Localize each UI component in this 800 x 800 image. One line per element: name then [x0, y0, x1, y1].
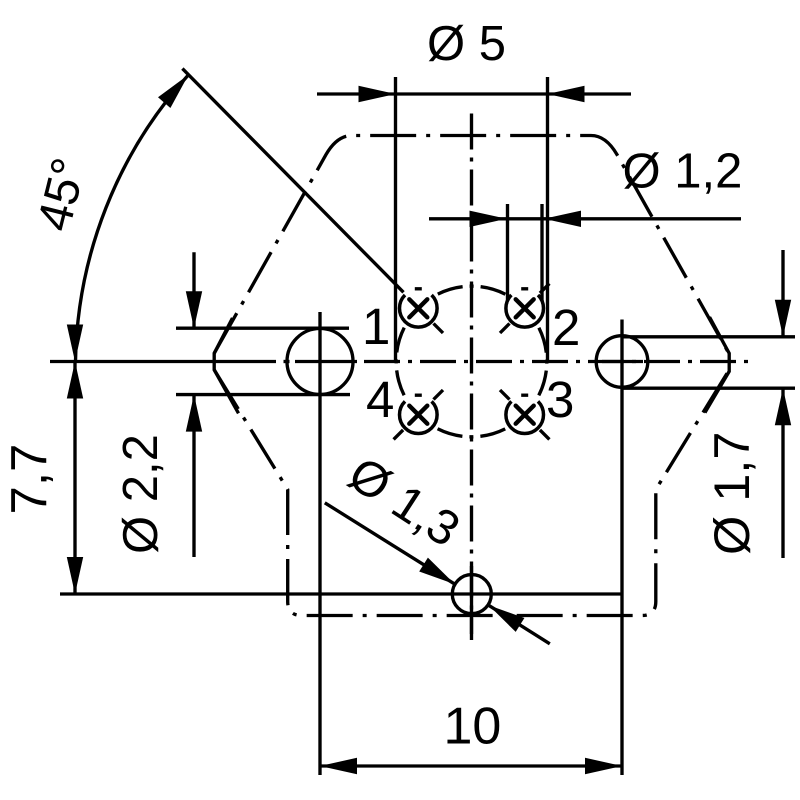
bolt circle Ø5 arc N — [435, 286, 508, 295]
body right edge / hole V-centerline / 10-dim extension — [620, 320, 623, 776]
flange tip left (solid) — [214, 318, 238, 413]
svg-text:45°: 45° — [28, 153, 97, 236]
flange tip right (solid) — [705, 317, 729, 413]
svg-text:Ø 5: Ø 5 — [427, 17, 506, 71]
pin 4 top dash — [415, 394, 422, 397]
arrowhead Ø1,7 top — [775, 300, 791, 337]
horizontal centerline chain — [364, 360, 748, 363]
bolt circle Ø5 arc S — [435, 427, 508, 436]
pin 3 circle — [506, 401, 544, 433]
arrowhead 45° arc bottom — [67, 325, 83, 362]
svg-text:Ø 1,3: Ø 1,3 — [339, 447, 469, 558]
arrowhead 7,7 bottom — [67, 557, 83, 594]
pin 2 outer radial dash — [540, 284, 550, 294]
dimension Ø5: extension line right — [546, 77, 549, 362]
pin 3 cross — [516, 406, 534, 424]
bolt circle Ø5 arc E — [537, 325, 546, 398]
svg-text:7,7: 7,7 — [1, 444, 58, 515]
pin 4 inner radial dash — [434, 390, 444, 400]
pin 4 outer radial dash — [394, 430, 404, 440]
body left edge / hole V-centerline / 10-dim extension — [318, 312, 321, 775]
pin 1 top dash — [415, 287, 422, 290]
dimension Ø1,3: leader line upper — [325, 503, 455, 584]
arrowhead 10 right — [585, 758, 622, 774]
pin 2 inner radial dash — [500, 324, 510, 334]
outline lower skirt (chain) — [214, 370, 729, 616]
arrowhead Ø2,2 bottom — [186, 395, 202, 432]
vertical centerline bottom-pin crosshair — [470, 566, 473, 634]
dimension 45°: slanted reference line — [182, 69, 403, 293]
horizontal centerline left-hole crosshair — [295, 360, 357, 363]
dimension Ø1,7: dimension line upper — [781, 250, 784, 337]
arrowhead Ø1,3 lower — [489, 605, 525, 632]
pin 2 top dash — [521, 287, 528, 290]
dimension Ø5: dimension line — [317, 92, 631, 95]
dimension Ø1,2: extension line left — [506, 204, 509, 301]
svg-text:2: 2 — [552, 299, 580, 356]
arrowhead Ø1,2 right — [544, 211, 581, 227]
pin 3 top dash — [521, 394, 528, 397]
bottom pin hole Ø1,3 — [452, 575, 491, 614]
dimension Ø2,2: dimension line lower — [192, 395, 195, 557]
dimension 10: dimension line — [320, 764, 622, 767]
arrowhead Ø5 right — [548, 86, 585, 102]
arrowhead 10 left — [320, 758, 357, 774]
dimension 7,7: dimension line — [73, 362, 76, 595]
svg-text:3: 3 — [546, 371, 574, 428]
arrowhead 7,7 top — [67, 362, 83, 399]
pin 2 cross — [516, 299, 534, 317]
dimension 45°: arc — [76, 75, 189, 362]
dimension Ø1,7: dimension line lower — [781, 388, 784, 558]
horizontal centerline solid left part — [50, 360, 276, 363]
wire: left hole bottom tangent (Ø2,2 extension) — [176, 393, 350, 396]
svg-text:Ø 2,2: Ø 2,2 — [114, 434, 168, 554]
dimension Ø1,3: leader line lower — [489, 605, 550, 644]
body bottom edge + 7,7 extension — [60, 592, 621, 595]
arrowhead Ø1,2 left — [470, 211, 507, 227]
wire: right hole bottom tangent (Ø1,7 extension) — [622, 387, 795, 390]
svg-text:1: 1 — [362, 298, 390, 355]
horizontal centerline dot — [284, 360, 290, 363]
svg-text:Ø 1,2: Ø 1,2 — [623, 145, 743, 199]
horizontal centerline right-hole crosshair — [602, 360, 643, 363]
vertical centerline chain — [470, 114, 473, 641]
pin 4 cross — [409, 406, 427, 424]
svg-text:4: 4 — [366, 371, 394, 428]
pin 1 cross — [409, 299, 427, 317]
arrowhead Ø1,3 upper — [419, 558, 455, 585]
arrowhead Ø1,7 bottom — [775, 388, 791, 425]
pin 3 outer radial dash — [540, 430, 550, 440]
pin 1 circle — [399, 295, 437, 327]
dimension Ø5: extension line left — [394, 77, 397, 362]
pin 1 inner radial dash — [434, 324, 444, 334]
dimension Ø2,2: dimension line upper — [192, 252, 195, 328]
wire: left hole top tangent (Ø2,2 extension) — [176, 327, 349, 330]
pin 4 circle — [399, 401, 437, 433]
left mounting hole Ø2,2 — [287, 329, 353, 395]
outline hexagon top (chain) — [214, 136, 729, 354]
wire: right hole top tangent (Ø1,7 extension) — [622, 335, 795, 338]
svg-text:Ø 1,7: Ø 1,7 — [703, 431, 760, 555]
arrowhead Ø5 left — [359, 86, 396, 102]
pin 2 circle — [506, 295, 544, 327]
right ground hole Ø1,7 — [596, 336, 648, 388]
svg-text:10: 10 — [444, 698, 502, 756]
dimension Ø1,2: dimension line — [429, 217, 741, 220]
pin 3 inner radial dash — [500, 390, 510, 400]
arrowhead 45° arc top — [158, 75, 189, 108]
bolt circle Ø5 arc W — [396, 325, 405, 398]
dimension Ø1,2: extension line right — [540, 204, 543, 301]
arrowhead Ø2,2 top — [186, 291, 202, 328]
